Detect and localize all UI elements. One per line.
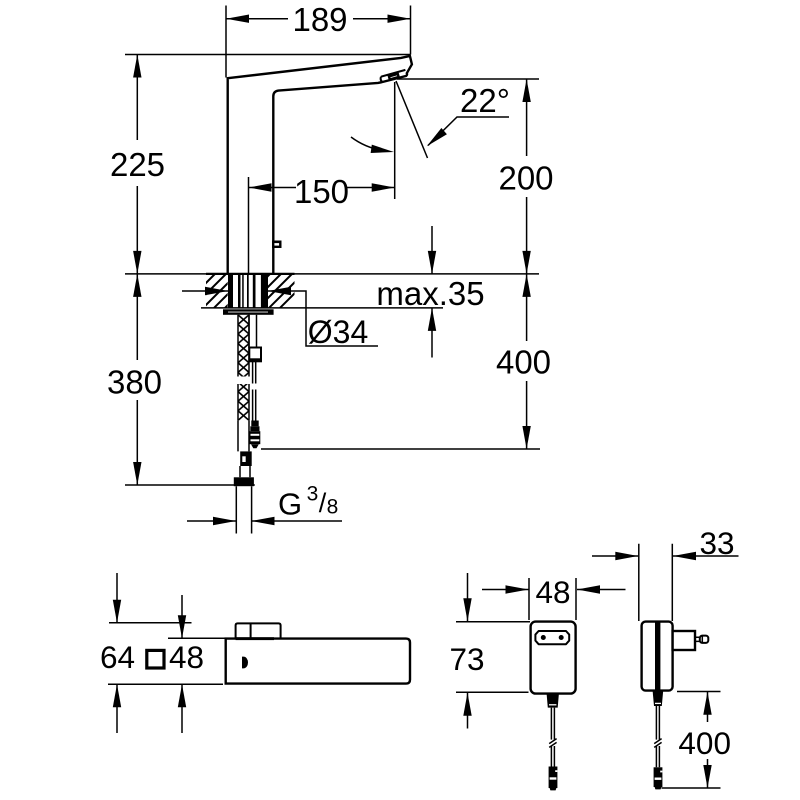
mounting flange below deck bbox=[223, 309, 274, 315]
vertical angle reference line at aerator bbox=[394, 82, 396, 199]
thick joint line under bump bbox=[236, 637, 274, 640]
cable break marks (side) bbox=[654, 739, 661, 748]
dimension Ø34 arrows bbox=[182, 290, 228, 292]
square symbol bbox=[147, 650, 164, 668]
europlug face outline bbox=[535, 631, 569, 644]
bottom extension line (plan) bbox=[108, 683, 223, 685]
dimension 380 line bbox=[136, 274, 138, 485]
svg-text:189: 189 bbox=[292, 1, 347, 38]
cable strain relief (side) bbox=[653, 691, 664, 706]
400 extension lines (side) bbox=[662, 692, 721, 789]
sensor tab on riser right edge bbox=[272, 241, 282, 249]
svg-text:33: 33 bbox=[699, 525, 734, 561]
dimension 200 line bbox=[526, 79, 528, 274]
svg-text:3: 3 bbox=[307, 483, 319, 506]
europlug pin (side) bbox=[695, 637, 700, 641]
aerator top separation line bbox=[381, 70, 406, 82]
extension line right of 189 bbox=[410, 6, 412, 55]
dimension 225 line bbox=[136, 55, 138, 274]
svg-text:48: 48 bbox=[169, 639, 204, 675]
power supply front body bbox=[531, 622, 576, 694]
deck top line bbox=[125, 273, 539, 275]
cable strain relief (front) bbox=[547, 694, 559, 708]
dimension 400 arrows (side) bbox=[707, 692, 709, 788]
64 top extension line bbox=[109, 622, 192, 624]
case seam band bbox=[655, 622, 660, 691]
aerator mark in plan view bbox=[242, 657, 248, 669]
faucet body outline (side view) bbox=[228, 56, 412, 274]
svg-text:48: 48 bbox=[535, 574, 570, 610]
G3/8 connection nut bbox=[234, 477, 254, 486]
braided supply hose upper segment bbox=[238, 315, 249, 377]
faucet plan view base bump bbox=[236, 623, 281, 638]
48 extension lines (psu) bbox=[529, 578, 576, 620]
dimension 64 arrows bbox=[116, 573, 118, 733]
33 extension lines bbox=[639, 544, 673, 621]
dimension 150 line bbox=[249, 187, 395, 189]
svg-text:73: 73 bbox=[449, 641, 484, 677]
dimension 73 arrows bbox=[467, 573, 469, 729]
deck hatching left bbox=[170, 274, 259, 308]
deck bottom line bbox=[201, 307, 443, 309]
europlug pin holes bbox=[541, 635, 546, 640]
svg-text:400: 400 bbox=[678, 725, 731, 761]
svg-text:max.35: max.35 bbox=[376, 275, 484, 312]
cable connector block bbox=[249, 348, 261, 362]
dimension 33 arrows bbox=[592, 555, 638, 557]
svg-text:G: G bbox=[278, 487, 302, 522]
svg-text:/: / bbox=[319, 488, 327, 518]
73 extension lines bbox=[456, 622, 530, 693]
22 degree label leader bbox=[428, 117, 509, 146]
dimension 400 line (main view) bbox=[526, 274, 528, 449]
plug housing (side) bbox=[673, 631, 695, 650]
svg-text:200: 200 bbox=[498, 160, 553, 197]
top reference line (225 level) bbox=[125, 54, 411, 56]
svg-text:225: 225 bbox=[110, 146, 165, 183]
svg-text:150: 150 bbox=[294, 173, 349, 210]
G3/8 bottom reference line bbox=[125, 484, 255, 486]
cable end connector (side) bbox=[654, 767, 663, 787]
power supply side body bbox=[642, 622, 673, 691]
svg-text:64: 64 bbox=[100, 639, 135, 675]
dimension max.35 arrows bbox=[431, 226, 433, 358]
svg-text:400: 400 bbox=[496, 344, 551, 381]
22 degree spray direction line bbox=[396, 81, 428, 158]
braided supply hose lower segment bbox=[238, 384, 249, 420]
aerator inner slot bbox=[389, 74, 399, 80]
cable break marks (front) bbox=[549, 739, 556, 748]
hose fitting block bbox=[240, 451, 252, 466]
faucet plan view body bbox=[226, 639, 410, 684]
sensor cable tube below flange bbox=[249, 315, 257, 348]
aerator level reference line (200 top) bbox=[397, 78, 539, 80]
cable end reference line (400 bottom) bbox=[261, 448, 540, 450]
hose section above nut bbox=[240, 466, 250, 477]
dimension 48 arrows (psu) bbox=[482, 589, 529, 591]
svg-text:380: 380 bbox=[107, 364, 162, 401]
extension line left of 189 bbox=[225, 6, 227, 78]
smooth hose section bbox=[238, 420, 249, 451]
cable (front) bbox=[551, 708, 554, 767]
deck hatching right bbox=[236, 274, 314, 308]
mounting shank bars in deck bbox=[228, 274, 268, 308]
hose end tube bbox=[236, 486, 251, 533]
svg-text:Ø34: Ø34 bbox=[308, 314, 368, 350]
svg-text:8: 8 bbox=[327, 496, 339, 519]
48 top extension line (plan) bbox=[168, 637, 226, 639]
sensor cable bbox=[253, 361, 256, 420]
dimension G3/8 arrows bbox=[187, 520, 236, 522]
svg-text:22°: 22° bbox=[460, 82, 510, 119]
dimension 189 line bbox=[226, 18, 411, 20]
dimension 48 arrows (plan) bbox=[181, 595, 183, 733]
cable end connector (front) bbox=[549, 767, 558, 789]
extension line 150 (riser centre) bbox=[248, 177, 250, 274]
cable plug connector bbox=[251, 421, 258, 427]
cable (side) bbox=[656, 706, 659, 767]
water flow arc arrow bbox=[351, 137, 387, 151]
